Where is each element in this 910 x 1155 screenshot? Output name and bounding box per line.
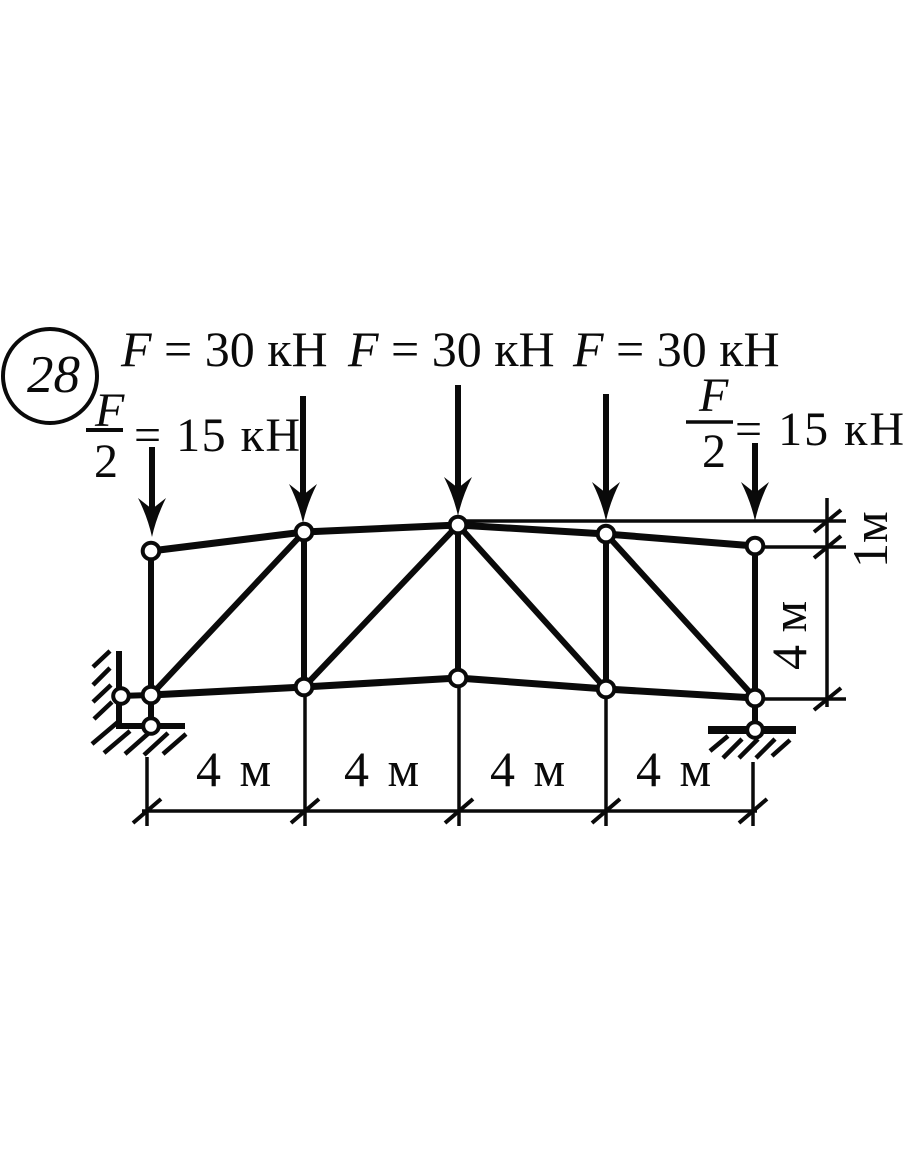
force arrow F/2 at node T1: [138, 447, 166, 537]
tick at 1m top: [814, 510, 841, 532]
tick 5: [739, 799, 767, 823]
force arrow F at node T4: [592, 394, 620, 521]
stub line at T5 level: [762, 545, 846, 549]
svg-text:2: 2: [94, 435, 118, 488]
force arrow F at node T2: [289, 396, 317, 523]
svg-text:F = 30 кН: F = 30 кН: [120, 321, 328, 377]
svg-text:4 м: 4 м: [761, 601, 817, 670]
left support hatching (floor band): [92, 722, 186, 755]
node T4: [598, 526, 615, 543]
svg-text:4 м: 4 м: [490, 741, 568, 797]
node T5: [747, 538, 764, 555]
right support hatching: [710, 736, 790, 758]
node B3: [450, 670, 467, 687]
svg-text:F = 30 кН: F = 30 кН: [347, 321, 555, 377]
svg-text:4 м: 4 м: [196, 741, 274, 797]
diagonal B1-T2: [151, 532, 304, 695]
tick 3: [445, 799, 473, 823]
node B2: [296, 679, 313, 696]
label F/2 = 15 kN (right): [686, 369, 906, 478]
top chord T1-T2-T3-T4-T5: [151, 525, 755, 551]
force arrow F/2 at node T5: [741, 443, 769, 521]
tick 1: [133, 799, 161, 823]
extension line below left support: [145, 757, 149, 826]
right support roller pin: [747, 722, 763, 738]
label F/2 = 15 kN (left): [86, 384, 302, 488]
extension line below B3: [457, 684, 461, 826]
node B1: [143, 687, 160, 704]
left support floor line: [116, 723, 185, 729]
node B4: [598, 681, 615, 698]
svg-text:1м: 1м: [842, 511, 898, 568]
vertical member 3: [455, 525, 461, 678]
tick 2: [291, 799, 319, 823]
extension line below B4: [604, 694, 608, 826]
vertical member 4: [603, 534, 609, 689]
vertical member 5: [752, 546, 758, 698]
svg-text:= 15 кН: = 15 кН: [134, 409, 302, 462]
svg-text:= 15 кН: = 15 кН: [735, 403, 906, 456]
left support hatching (wall band): [93, 651, 112, 719]
node T1: [143, 543, 160, 560]
left support link to wall pin: [121, 695, 151, 696]
tick at 1m bottom: [814, 536, 841, 558]
bottom dimension line: [142, 809, 757, 813]
svg-text:28: 28: [27, 346, 80, 404]
tick at 4m bottom: [814, 688, 841, 710]
left support wall line: [116, 651, 122, 726]
tick 4: [592, 799, 620, 823]
extension line below B2: [303, 690, 307, 826]
left support link to floor pin: [148, 695, 154, 726]
svg-text:2: 2: [702, 425, 726, 478]
svg-text:4 м: 4 м: [344, 741, 422, 797]
right support link to roller pin: [752, 698, 758, 730]
force arrow F at node T3: [444, 385, 472, 516]
node T3: [450, 517, 467, 534]
diagonal B4-T3: [458, 525, 606, 689]
diagonal B2-T3: [304, 525, 458, 687]
vertical dimension line: [825, 498, 829, 707]
right support ground bar: [708, 726, 796, 734]
diagonal B5-T4: [606, 534, 755, 698]
extension line below right support: [751, 762, 755, 826]
left support floor pin: [143, 718, 159, 734]
bottom chord B1-B2-B3-B4-B5: [151, 678, 755, 698]
svg-text:4 м: 4 м: [636, 741, 714, 797]
vertical member 2: [301, 532, 307, 687]
problem number circle 28: [3, 329, 97, 423]
node T2: [296, 524, 313, 541]
node B5: [747, 690, 764, 707]
vertical member 1: [148, 551, 154, 695]
reference line from apex (1m datum): [460, 519, 846, 523]
svg-text:F = 30 кН: F = 30 кН: [572, 321, 780, 377]
svg-text:F: F: [698, 369, 729, 422]
left support wall pin: [113, 688, 129, 704]
stub line at B5 level: [762, 697, 846, 701]
